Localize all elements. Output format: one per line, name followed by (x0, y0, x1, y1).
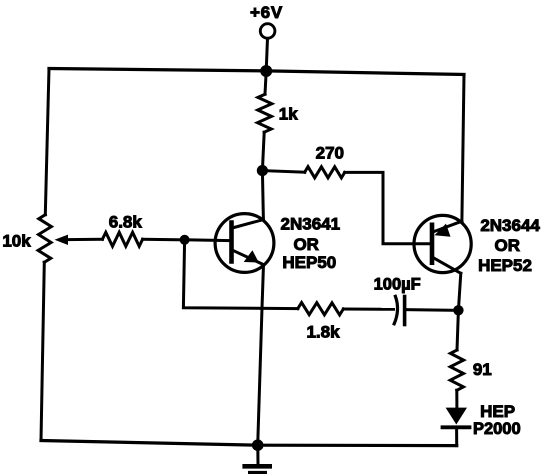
svg-text:2N3644: 2N3644 (480, 216, 540, 235)
svg-text:HEP50: HEP50 (282, 253, 336, 272)
svg-text:OR: OR (293, 235, 319, 254)
svg-text:1.8k: 1.8k (306, 323, 340, 342)
svg-text:1k: 1k (279, 105, 298, 124)
svg-text:OR: OR (495, 236, 521, 255)
svg-text:2N3641: 2N3641 (281, 215, 341, 234)
svg-text:91: 91 (473, 360, 492, 379)
svg-text:HEP: HEP (480, 402, 515, 421)
svg-text:P2000: P2000 (473, 420, 521, 438)
svg-text:270: 270 (316, 144, 344, 163)
svg-text:10k: 10k (2, 232, 31, 251)
svg-text:+6V: +6V (250, 3, 283, 22)
svg-text:100µF: 100µF (374, 276, 421, 294)
svg-text:HEP52: HEP52 (478, 256, 532, 275)
svg-text:6.8k: 6.8k (109, 213, 143, 232)
